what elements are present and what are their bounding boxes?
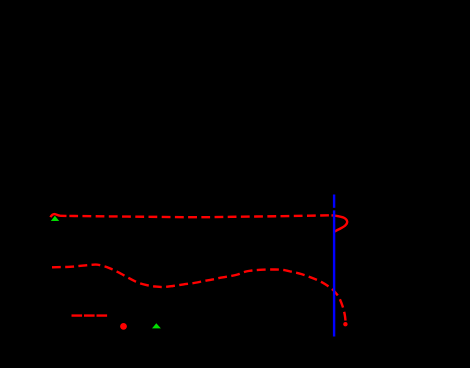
- vertical asymptote (blue), lower segment: [333, 210, 335, 336]
- vertical asymptote (blue), upper segment: [333, 195, 335, 208]
- legend sample: green triangle marker: [152, 323, 161, 328]
- legend sample: red circle marker: [120, 323, 127, 330]
- data marker: green triangle on upper branch at left: [51, 216, 59, 221]
- upper dispersion branch (red), solid start bump over triangle: [51, 214, 67, 217]
- lower dispersion branch (red dashed): [52, 265, 346, 325]
- lower branch end blob: [343, 322, 347, 326]
- upper dispersion branch (red dashed), flat part: [67, 215, 332, 217]
- legend sample: red dashed line: [72, 314, 108, 316]
- upper branch back-bending curl at asymptote: [332, 215, 348, 231]
